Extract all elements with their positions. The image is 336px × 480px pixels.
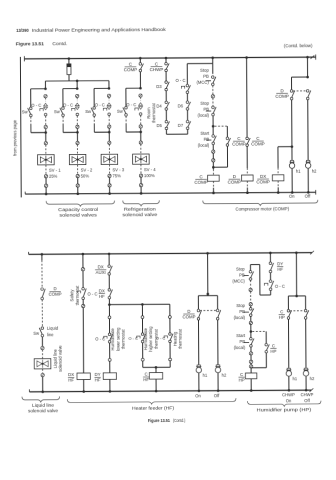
svg-text:PB: PB: [239, 309, 245, 314]
contact D/COMP (HF lamp h1): [197, 309, 201, 320]
svg-text:13/390: 13/390: [16, 28, 29, 33]
wire lamp h1 to bottom rail: [291, 169, 293, 193]
wire node to DX coil chain: [278, 146, 292, 148]
junction coil DX/COMP at bottom rail: [277, 191, 280, 194]
O-C auto contact (HP feed): [269, 280, 273, 291]
brace humidifier pump (HP): [247, 401, 321, 407]
svg-text:Safety: Safety: [69, 289, 74, 302]
svg-text:Liquid line: Liquid line: [52, 349, 57, 369]
svg-text:CHWP: CHWP: [301, 392, 314, 397]
thermostat contact D3: [165, 81, 169, 91]
lamp h1 (CHWP on): [286, 368, 291, 376]
wire lamp h2 to bottom rail (HF): [217, 373, 219, 391]
svg-text:Liquid line: Liquid line: [32, 403, 55, 408]
wire DY/HF to O-C contact: [270, 273, 272, 281]
wire top rail to C/COMP contact (SV-4): [139, 58, 141, 63]
contact DX/HF: [108, 289, 112, 299]
junction (SV-3 at bottom rail): [108, 192, 111, 195]
terminal (SV-2 chain upper): [76, 94, 79, 97]
coil DX/COMP (star contactor): [272, 175, 284, 181]
svg-text:solenoid valve: solenoid valve: [28, 408, 59, 413]
contact DY/HF: [269, 262, 273, 273]
terminal (SV-3 chain upper): [107, 94, 110, 97]
svg-text:Contd.: Contd.: [52, 41, 67, 46]
svg-text:D5: D5: [157, 123, 163, 128]
push button Start PB (local) (HP): [244, 341, 249, 343]
wire coil DY/HF to bottom rail: [109, 379, 111, 391]
humidistat lower setting contact O-C: [108, 333, 112, 343]
svg-text:PB: PB: [239, 273, 245, 278]
svg-text:Off: Off: [305, 193, 311, 198]
svg-text:Industrial Power Engineering a: Industrial Power Engineering and Applica…: [32, 27, 167, 33]
wire stop PB local to terminal (HP): [250, 316, 252, 321]
svg-text:(local): (local): [198, 143, 210, 148]
svg-text:O - C: O - C: [175, 78, 185, 83]
svg-text:D4: D4: [156, 103, 162, 108]
terminal (starter chain a): [212, 150, 215, 153]
coil D/COMP (delta contactor): [242, 175, 254, 181]
svg-text:D3: D3: [156, 84, 162, 89]
svg-text:SV - 2: SV - 2: [81, 168, 93, 173]
wire HF lamp feed horizontal: [198, 295, 217, 297]
wire DX/HF contact to node: [108, 299, 110, 305]
svg-text:COMP: COMP: [251, 141, 265, 146]
junction top rail / indication chain: [306, 56, 309, 59]
wire switch to loop bottom (SV-1): [30, 117, 32, 125]
wire feed to D/COMP contact (h1): [291, 77, 293, 90]
terminal (HP chain b): [249, 303, 252, 306]
svg-text:PB: PB: [203, 74, 209, 79]
wire switch to loop bottom (SV-3): [93, 116, 95, 124]
coil DY/HF: [103, 373, 116, 380]
lamp h2 (COMP off): [305, 160, 310, 168]
node L1 top rail (block 1): [24, 57, 315, 59]
lamp h1 (COMP on): [289, 161, 294, 169]
svg-text:COMP: COMP: [194, 180, 208, 185]
terminal (HP chain c): [249, 321, 252, 324]
wire seal-in branch (dashed): [215, 125, 228, 127]
svg-text:(Contd.): (Contd.): [173, 418, 186, 423]
wire feed to D/COMP contact (HF h1): [197, 296, 199, 310]
terminal (liquid line upper): [41, 346, 44, 349]
svg-text:On: On: [289, 194, 295, 199]
wire sub-rail corner to heating thermostat: [169, 304, 171, 315]
wire contact to switch (liquid line): [41, 300, 43, 327]
svg-text:thermostat: thermostat: [151, 102, 156, 123]
wire valve to terminal (SV-2): [77, 165, 79, 175]
switch Sw (SV-2 manual): [60, 107, 64, 117]
coil DX/HF: [77, 373, 90, 380]
svg-text:COMP: COMP: [124, 67, 138, 72]
junction (SV-4 branch top): [139, 87, 142, 90]
svg-text:CHWP: CHWP: [150, 67, 164, 72]
wire terminal to safety contact: [82, 271, 84, 288]
svg-text:(local): (local): [198, 113, 210, 118]
junction seal-in tap (HP top): [250, 330, 253, 333]
svg-text:h1: h1: [203, 373, 208, 378]
svg-text:HF: HF: [68, 378, 74, 383]
svg-text:Stop: Stop: [236, 267, 245, 272]
wire contact to terminal (SV-2): [76, 116, 78, 125]
fuse F1: [68, 57, 71, 60]
wire sub-rail corner to SV-1 branch: [44, 81, 46, 89]
wire contact to terminal (SV-1): [45, 116, 47, 125]
thermostat contact D7: [186, 120, 190, 129]
wire contact to loop bottom (heating): [169, 343, 171, 358]
junction coil C/HP at bottom rail: [250, 389, 253, 392]
wire coil C/HP to bottom rail: [250, 379, 252, 391]
svg-text:O - C: O - C: [31, 103, 41, 108]
svg-text:HF: HF: [143, 377, 149, 382]
svg-text:h1: h1: [296, 169, 301, 174]
terminal (above valve SV-4): [139, 141, 142, 144]
wire to coil DY/HF: [109, 361, 111, 373]
junction (SV-1 at bottom rail): [45, 193, 48, 196]
wire lamp h2 to bottom rail: [307, 168, 309, 192]
svg-text:O - C: O - C: [87, 291, 97, 296]
wire loop top (SV-2 branch): [63, 88, 77, 90]
terminal (humidistat lower bottom): [108, 358, 111, 361]
terminal (liquid line lower): [41, 373, 44, 376]
junction top rail / delta contactor chain: [245, 56, 248, 59]
svg-text:Start: Start: [200, 131, 210, 136]
seal-in contact C/HP: [265, 343, 269, 353]
terminal (SV-1 chain upper): [44, 95, 47, 98]
svg-text:SV - 4: SV - 4: [144, 167, 156, 172]
svg-text:O - C: O - C: [128, 336, 138, 341]
wire loop to valve (SV-1): [45, 133, 47, 142]
wire loop top (SV-4 branch): [126, 87, 141, 89]
wire loop bottom (C/HF feed): [143, 366, 170, 368]
junction (SV-2 at bottom rail): [77, 192, 80, 195]
junction top rail / HP indication chain: [295, 251, 298, 254]
solenoid valve SV-3: [101, 154, 118, 164]
wire contact link (dashed, HP lamps): [290, 310, 304, 312]
terminal (SV-4 chain upper): [139, 94, 142, 97]
wire sub-rail to humidistat higher contact: [141, 304, 143, 315]
junction humidistat sub-rail node: [108, 303, 111, 306]
junction HP lamp h1 at bottom rail: [288, 389, 291, 392]
svg-text:COMP: COMP: [275, 94, 289, 99]
junction liquid line at bottom rail: [41, 390, 44, 393]
junction top rail / SV-4 branch: [139, 57, 142, 60]
wire node to start PB: [212, 126, 214, 135]
wire contact to terminal (SV-3): [108, 116, 110, 125]
junction (SV-2 branch bottom): [76, 131, 79, 134]
wire loop bottom (SV-3): [94, 131, 109, 133]
wire terminal to stop PB local: [212, 98, 214, 106]
wire D5 to join: [165, 130, 167, 135]
wire D4 to D5: [165, 110, 167, 121]
wire to loop bottom (SV-1): [45, 129, 47, 133]
heating thermostat contact O-C: [169, 333, 173, 343]
svg-text:SV - 3: SV - 3: [112, 167, 124, 172]
wire lamp feed horizontal: [292, 76, 308, 78]
wire chain B top: [186, 64, 188, 85]
svg-text:Sw: Sw: [85, 109, 92, 114]
humidistat higher setting contact O-C: [141, 333, 145, 343]
svg-text:Humidifier pump (HP): Humidifier pump (HP): [257, 407, 312, 412]
svg-text:D7: D7: [178, 123, 184, 128]
svg-text:O - C: O - C: [126, 102, 136, 107]
svg-text:DY: DY: [95, 372, 101, 377]
terminal (below valve SV-4 lower): [139, 184, 142, 187]
wire top rail to D/COMP contact (liquid line): [41, 254, 43, 260]
wire to switch Sw (SV-3): [93, 88, 95, 106]
svg-text:Sw: Sw: [33, 331, 40, 336]
push button Stop PB (local): [206, 110, 211, 112]
interlock contact C/COMP (delta chain): [246, 137, 250, 146]
junction coil C/COMP at bottom rail: [212, 192, 215, 195]
svg-text:COMP: COMP: [182, 314, 195, 319]
wire safety contact to terminal: [82, 299, 84, 304]
svg-text:On: On: [286, 398, 292, 403]
safety thermostat contact O-C: [82, 288, 86, 300]
wire chain A-B join: [166, 133, 187, 135]
svg-text:DX: DX: [68, 372, 74, 377]
wire to switch Sw (SV-2): [62, 89, 64, 107]
svg-text:Start: Start: [236, 333, 246, 338]
wire to loop bottom (SV-3): [108, 128, 110, 132]
wire to coil C/HP: [250, 368, 252, 373]
junction top rail / HP starter feed: [269, 252, 272, 255]
wire seal-in return (HP): [265, 353, 267, 368]
svg-text:On: On: [195, 393, 201, 398]
switch Sw (SV-4 manual): [123, 106, 127, 116]
junction HP lamp h2 at bottom rail: [305, 389, 308, 392]
wire to coil C/HF: [155, 367, 157, 372]
svg-text:25%: 25%: [49, 174, 58, 179]
junction HF lamp h1 at bottom rail: [198, 390, 201, 393]
svg-text:Refrigeration: Refrigeration: [124, 206, 157, 211]
terminal (HP chain d): [249, 352, 252, 355]
svg-text:Heater feeder (HF): Heater feeder (HF): [132, 405, 175, 410]
wire contact to terminal (humidistat lower): [109, 343, 111, 358]
svg-text:COMP: COMP: [232, 141, 246, 146]
wire top rail down to lamp feed node: [306, 57, 308, 77]
junction top rail / liquid line chain: [41, 253, 44, 256]
switch Sw (SV-1 manual): [28, 107, 32, 117]
junction top rail / safety thermostat chain: [82, 253, 85, 256]
terminal (SV-3 chain lower): [108, 125, 111, 128]
node L1 top rail (block 2): [29, 253, 312, 255]
junction lamp h2 at bottom rail: [307, 191, 310, 194]
wire contact to terminal (SV-4): [140, 115, 142, 124]
svg-text:h2: h2: [222, 373, 227, 378]
wire contact to coil D/COMP: [246, 146, 248, 168]
svg-text:Stop: Stop: [236, 303, 245, 308]
brace refrigeration solenoid valve: [123, 200, 160, 206]
svg-text:Capacity control: Capacity control: [58, 207, 98, 212]
svg-text:COMP: COMP: [228, 179, 242, 184]
terminal (starter chain b): [212, 159, 215, 162]
wire terminal to seal-in node (HP): [250, 325, 252, 332]
junction HF lamp h2 at bottom rail: [217, 389, 220, 392]
svg-text:SV - 1: SV - 1: [49, 168, 61, 173]
contact D/COMP (HF lamp h2): [216, 309, 220, 320]
thermostat contact D4: [165, 101, 169, 110]
svg-text:Sw: Sw: [54, 109, 61, 114]
lamp h2 (CHWP off): [303, 368, 308, 376]
wire valve to terminal (SV-1): [45, 165, 47, 175]
wire top rail to C/COMP interlock contact: [246, 58, 248, 138]
svg-text:Stop: Stop: [200, 68, 209, 73]
svg-text:DX: DX: [98, 264, 104, 269]
junction seal-in tap (top): [212, 125, 215, 128]
wire D6 to D7: [187, 110, 189, 121]
svg-text:solenoid valves: solenoid valves: [59, 213, 97, 218]
svg-text:HP: HP: [279, 315, 285, 320]
wire to seal-in return node: [212, 162, 214, 167]
wire to bottom rail (SV-2): [77, 187, 79, 193]
wire switch to loop bottom (SV-2): [62, 116, 64, 124]
wire D7 to join: [187, 129, 189, 134]
wire to bottom rail (SV-1): [45, 187, 47, 193]
terminal (below valve SV-1 upper): [44, 175, 47, 178]
contact C/HP (lamp h1): [287, 309, 291, 319]
wire C/CHWP to D3: [165, 72, 167, 82]
wire contact to lamp h1 (HP): [287, 319, 289, 368]
contact C/HP (lamp h2): [304, 309, 308, 319]
junction loop bottom / coil C/HF: [155, 366, 158, 369]
junction DX branch node: [291, 145, 294, 148]
coil C/COMP (compressor contactor): [208, 175, 220, 181]
svg-text:h2: h2: [310, 376, 315, 381]
wire node to lamp h1: [291, 147, 293, 161]
svg-text:h1: h1: [292, 376, 297, 381]
junction sub-rail / humidistat higher branch: [141, 303, 144, 306]
wire start PB to terminal (HP): [250, 347, 252, 352]
svg-text:HP: HP: [239, 377, 245, 382]
junction coil DX/HF at bottom rail: [82, 390, 85, 393]
wire loop to valve (SV-2): [76, 132, 78, 141]
wire valve to terminal (liquid line): [42, 369, 44, 373]
svg-text:50%: 50%: [81, 173, 90, 178]
wire coil DX/COMP to bottom rail: [277, 181, 279, 187]
switch Sw (liquid line): [39, 327, 43, 337]
left supply bus (from previous page): [19, 57, 22, 197]
junction (SV-2 branch top): [76, 87, 79, 90]
wire top rail to HP lamp feed: [295, 253, 297, 296]
push button Stop PB (local) (HP): [244, 311, 249, 313]
svg-text:O - C: O - C: [63, 103, 73, 108]
svg-text:PB: PB: [204, 137, 210, 142]
wire to switch Sw (SV-4): [125, 88, 127, 106]
wire switch to terminal (liquid line): [41, 337, 43, 348]
svg-text:C: C: [272, 343, 275, 348]
contact C/CHWP: [165, 62, 169, 71]
terminal (HP chain e): [249, 360, 252, 363]
coil C/HP (humidifier pump contactor): [245, 373, 256, 379]
brace compressor motor (COMP): [203, 200, 318, 206]
wire D3 to D4: [165, 91, 167, 102]
svg-text:D: D: [187, 309, 190, 314]
svg-text:solenoid valve: solenoid valve: [122, 212, 158, 217]
wire seal-in return: [226, 146, 228, 167]
svg-text:CHWP: CHWP: [282, 392, 295, 397]
terminal (heating thermostat top): [168, 316, 171, 319]
svg-text:(MCC): (MCC): [196, 80, 209, 85]
svg-text:O - C: O - C: [156, 336, 166, 341]
svg-text:O - C: O - C: [95, 103, 105, 108]
lamp h2 (HF off): [215, 365, 220, 373]
wire contact link (dashed): [293, 90, 306, 92]
svg-text:thermostat: thermostat: [75, 285, 80, 306]
wire loop top (SV-3 branch): [94, 87, 109, 89]
wire fuse to sub-rail: [68, 75, 70, 81]
wire to bottom rail (SV-3): [109, 187, 111, 193]
wire loop bottom (SV-4): [126, 131, 141, 133]
wire feed to contact (HF h2): [217, 296, 219, 310]
junction (SV-1 branch top): [44, 87, 47, 90]
svg-text:PB: PB: [203, 107, 209, 112]
svg-text:DY: DY: [277, 261, 283, 266]
svg-text:75%: 75%: [112, 173, 121, 178]
junction coil D/COMP at bottom rail: [246, 191, 249, 194]
junction coil C/HF at bottom rail: [155, 390, 158, 393]
push button Stop PB (MCC) (HP): [243, 275, 248, 277]
contact D/COMP (liquid line): [41, 288, 45, 300]
wire top rail to C/CHWP contact: [165, 58, 167, 63]
contact DX/AUXI: [108, 265, 112, 275]
node humidistat sub-rail: [109, 303, 169, 305]
wire loop bottom (SV-2): [63, 131, 77, 133]
wire lamp h2 to bottom rail (HP): [305, 376, 307, 390]
sub-rail feeding SV branches: [45, 80, 108, 82]
svg-text:Off: Off: [214, 393, 220, 398]
svg-text:COMP: COMP: [256, 179, 270, 184]
terminal (below valve SV-2 upper): [76, 174, 79, 177]
junction (SV-4 at bottom rail): [140, 192, 143, 195]
wire seal-in branch (dashed, HP): [252, 330, 266, 332]
junction top rail / compressor starter chain: [211, 56, 214, 59]
svg-text:Stop: Stop: [200, 101, 209, 106]
svg-text:solenoid valve: solenoid valve: [58, 345, 63, 372]
junction sub-rail / SV-2 branch: [76, 80, 79, 83]
svg-text:(Contd. below): (Contd. below): [284, 43, 313, 48]
terminal (HP chain f): [249, 365, 252, 368]
wire top rail to terminal (safety): [82, 254, 84, 268]
wire coil D/COMP to bottom rail: [246, 181, 248, 187]
junction lamp h1 at bottom rail: [291, 191, 294, 194]
svg-text:thermostat: thermostat: [178, 328, 183, 349]
wire HP lamp feed horizontal: [288, 295, 305, 297]
wire to coil DX/HF: [82, 308, 84, 373]
svg-text:AUXI: AUXI: [96, 270, 106, 275]
wire coil C/COMP to bottom rail: [212, 181, 214, 187]
wire contact to loop bottom (humidistat higher): [142, 343, 144, 358]
svg-text:(MCC): (MCC): [232, 279, 245, 284]
push button Stop PB (MCC): [206, 80, 211, 82]
terminal (safety chain): [81, 268, 84, 271]
wire contact to lamp h2: [307, 100, 309, 160]
brace heater feeder (HF): [67, 398, 236, 404]
junction (SV-1 branch bottom): [44, 131, 47, 134]
terminal (HP chain a): [249, 288, 252, 291]
svg-text:HF: HF: [95, 378, 101, 383]
wire coil DX/HF to bottom rail: [83, 380, 85, 392]
svg-text:Sw: Sw: [22, 109, 29, 114]
contact C/COMP (SV-4 branch): [139, 63, 143, 72]
svg-text:h2: h2: [312, 168, 317, 173]
wire contact to DX branch node: [291, 100, 293, 147]
wire stop PB MCC to terminal (HP): [250, 280, 252, 288]
wire loop to valve (SV-3): [108, 132, 110, 141]
terminal (below valve SV-1 lower): [44, 184, 47, 187]
wire O-C to D6: [186, 93, 188, 101]
wire feed to C/HP contact (h1): [287, 296, 289, 310]
wire top rail to DX/AUXI contact: [108, 254, 110, 265]
